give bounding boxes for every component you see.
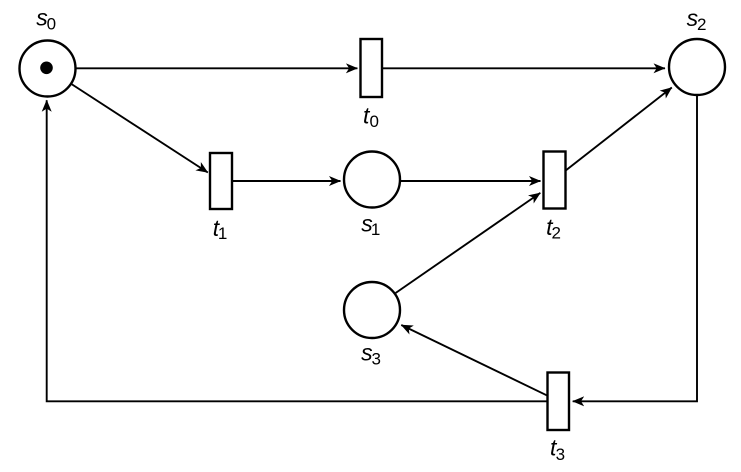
wire s2 to t3 bbox=[573, 96, 697, 402]
label s2 bbox=[687, 5, 707, 34]
wire s0 to t0 bbox=[76, 67, 357, 69]
label t0 bbox=[363, 103, 379, 132]
svg-text:0: 0 bbox=[47, 14, 56, 33]
transition t1 bbox=[210, 153, 232, 209]
svg-text:0: 0 bbox=[370, 112, 379, 131]
wire t3 to s0 bbox=[47, 100, 548, 401]
place s3 bbox=[344, 282, 400, 338]
svg-text:1: 1 bbox=[371, 220, 380, 239]
svg-text:2: 2 bbox=[697, 15, 706, 34]
svg-text:3: 3 bbox=[556, 445, 565, 464]
place s1 bbox=[344, 152, 400, 208]
svg-text:1: 1 bbox=[218, 224, 227, 243]
label t3 bbox=[550, 434, 565, 464]
label s3 bbox=[361, 340, 381, 369]
wire s3 to t2 bbox=[396, 193, 541, 293]
place s2 bbox=[669, 39, 725, 95]
token in s0 bbox=[40, 62, 53, 75]
svg-text:2: 2 bbox=[552, 223, 561, 242]
wire s0 to t1 bbox=[71, 84, 207, 173]
label t1 bbox=[213, 215, 228, 243]
transition t3 bbox=[548, 373, 570, 431]
label s1 bbox=[361, 211, 380, 240]
wire s1 to t2 bbox=[401, 180, 541, 182]
svg-text:3: 3 bbox=[372, 350, 381, 369]
wire t2 to s2 bbox=[566, 88, 672, 171]
transition t0 bbox=[361, 39, 383, 97]
label s0 bbox=[36, 5, 56, 34]
place s0 bbox=[20, 41, 76, 97]
wire t1 to s1 bbox=[232, 180, 341, 182]
transition t2 bbox=[544, 152, 566, 209]
wire t0 to s2 bbox=[382, 67, 665, 69]
wire t3 to s3 bbox=[401, 325, 547, 396]
label t2 bbox=[546, 214, 561, 243]
